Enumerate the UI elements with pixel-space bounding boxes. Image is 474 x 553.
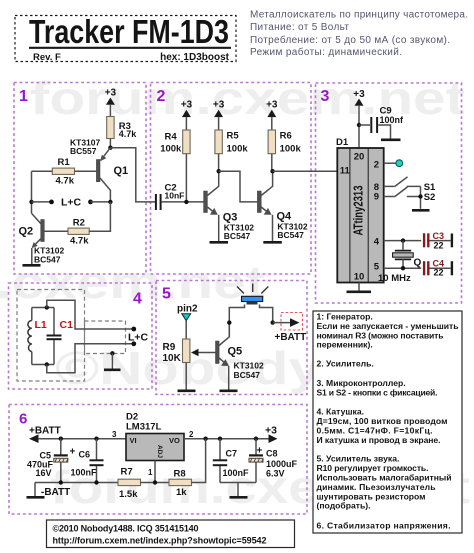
svg-text:http://forum.cxem.net/index.ph: http://forum.cxem.net/index.php?showtopi… <box>53 536 267 546</box>
resistor R5 <box>215 130 248 171</box>
inductor L1 <box>28 308 47 365</box>
node C5 top <box>59 437 63 441</box>
node A: R3/Q1 emitter junction <box>108 146 112 150</box>
section box 4 <box>9 283 153 389</box>
svg-text:D1: D1 <box>336 137 349 148</box>
node ADJ/R7/R8 <box>153 480 157 484</box>
svg-text:Rev. F: Rev. F <box>33 52 61 63</box>
capacitor C4 <box>424 259 451 278</box>
title box <box>15 13 236 63</box>
ground (C9) <box>381 139 401 142</box>
svg-text:переменник).: переменник). <box>317 340 373 350</box>
transistor Q5 KT3102 BC547 <box>216 323 265 390</box>
svg-text:BC547: BC547 <box>224 231 251 241</box>
svg-text:6: 6 <box>19 411 27 428</box>
resistor R3 <box>107 117 138 148</box>
node VO/R8 <box>203 437 207 441</box>
svg-text:6. Стабилизатор напряжения.: 6. Стабилизатор напряжения. <box>317 521 451 531</box>
svg-text:10 MHz: 10 MHz <box>378 273 411 284</box>
svg-text:BC547: BC547 <box>234 370 261 380</box>
wire pin2 to R9 <box>185 321 187 339</box>
resistor R2 <box>44 202 110 246</box>
svg-text:Q1: Q1 <box>114 165 129 177</box>
svg-text:R8: R8 <box>174 468 186 479</box>
wire left vertical R1 to Q2 <box>31 171 33 213</box>
shield box (cable) <box>85 321 126 354</box>
svg-text:100k: 100k <box>160 143 182 154</box>
wire Q3 collector to Q4 base <box>219 171 258 202</box>
wire bottom feed to L+C terminal <box>47 341 136 372</box>
node L+C left junction <box>29 200 33 204</box>
svg-text:+3: +3 <box>105 88 117 99</box>
ground (Q3 emitter) <box>210 241 229 244</box>
node C5 bottom <box>59 480 63 484</box>
svg-text:4.7k: 4.7k <box>70 235 89 246</box>
svg-text:L+C: L+C <box>61 197 82 209</box>
svg-text:+3: +3 <box>181 100 193 111</box>
section box 3 <box>316 83 462 303</box>
power +3 (box1) <box>105 88 117 117</box>
power +3 (R6) <box>266 100 278 131</box>
section box 6 <box>9 405 307 515</box>
wire bottom rail left <box>35 482 118 484</box>
svg-text:20: 20 <box>354 152 365 163</box>
pin 5 wire <box>384 266 422 270</box>
svg-text:100k: 100k <box>280 143 302 154</box>
svg-text:hex: 1D3boost: hex: 1D3boost <box>160 52 230 63</box>
svg-text:22: 22 <box>434 268 444 278</box>
svg-text:И катушка и провод в экране.: И катушка и провод в экране. <box>317 435 441 445</box>
copyright box <box>47 520 295 548</box>
svg-text:Q: Q <box>414 258 422 269</box>
svg-text:R6: R6 <box>280 131 292 142</box>
regulator D2 LM317L <box>112 412 194 478</box>
svg-text:1000uF: 1000uF <box>266 459 298 469</box>
svg-text:VI: VI <box>130 436 137 445</box>
svg-text:R4: R4 <box>165 131 178 142</box>
svg-text:+BATT: +BATT <box>29 426 61 437</box>
svg-text:11: 11 <box>340 165 351 176</box>
svg-text:16V: 16V <box>36 468 52 478</box>
svg-text:©2010 Nobody1488. ICQ 35141514: ©2010 Nobody1488. ICQ 351415140 <box>53 524 199 534</box>
svg-text:1.5k: 1.5k <box>119 489 138 500</box>
wire speaker left lead to Q5 collector <box>227 305 244 337</box>
svg-text:3: 3 <box>112 430 117 439</box>
ground (R9) <box>178 389 196 392</box>
svg-text:L+C: L+C <box>128 332 149 344</box>
svg-text:Металлоискатель по принципу ча: Металлоискатель по принципу частотомера. <box>250 10 468 21</box>
svg-text:+3: +3 <box>353 89 365 100</box>
node L+C rail with terminals <box>32 197 111 209</box>
watermark row 1 <box>30 72 465 124</box>
capacitor C1 <box>47 308 74 365</box>
resistor R8 1k <box>169 439 206 498</box>
svg-text:LM317L: LM317L <box>126 422 162 433</box>
svg-text:10: 10 <box>354 272 365 283</box>
svg-text:+3: +3 <box>266 100 278 111</box>
watermark row 3 <box>55 342 455 394</box>
svg-text:3: 3 <box>321 88 330 105</box>
notes panel <box>313 311 462 533</box>
svg-text:+3: +3 <box>213 100 225 111</box>
svg-text:C3: C3 <box>433 231 445 241</box>
watermark row 2 <box>0 256 265 308</box>
svg-text:6.3V: 6.3V <box>266 468 285 478</box>
svg-text:R5: R5 <box>227 131 240 142</box>
pin 10 ground <box>347 283 372 292</box>
ground (S1 S2) <box>412 209 430 212</box>
wire top feed to L+C terminal <box>47 300 136 331</box>
svg-text:4: 4 <box>133 291 142 308</box>
watermark row 4 <box>50 461 470 513</box>
node L+C label <box>128 332 149 344</box>
svg-text:5: 5 <box>374 262 380 273</box>
svg-text:4.7k: 4.7k <box>119 129 138 139</box>
svg-text:Tracker FM-1D3: Tracker FM-1D3 <box>29 13 229 50</box>
wire VO to +3 <box>184 438 270 440</box>
section box 2 <box>151 83 312 275</box>
ground (Q5 emitter) <box>220 389 238 392</box>
svg-text:5: 5 <box>162 286 171 303</box>
node C6 top <box>94 437 98 441</box>
wire node A to C2 <box>110 148 155 202</box>
transistor Q3 KT3102 BC547 <box>204 171 255 241</box>
svg-text:1: 1 <box>19 88 28 105</box>
capacitor C6 100nF <box>71 439 104 483</box>
IC D1 ATtiny2313 <box>336 137 384 283</box>
shield box (coil) <box>17 290 85 382</box>
svg-text:R9: R9 <box>163 342 176 353</box>
capacitor C8 1000uF 6.3V <box>249 439 298 483</box>
capacitor C2 <box>156 182 204 210</box>
svg-text:1k: 1k <box>176 487 187 498</box>
resistor R7 1.5k <box>118 466 169 500</box>
svg-text:2: 2 <box>374 159 379 170</box>
capacitor C3 <box>424 231 451 251</box>
ground (Q4 emitter) <box>263 241 282 244</box>
ground -BATT <box>27 483 71 499</box>
svg-text:4.7k: 4.7k <box>56 175 75 186</box>
node C8 top <box>254 437 258 441</box>
svg-text:C6: C6 <box>79 450 91 460</box>
node C7 top <box>218 437 222 441</box>
terminal bar (C4) <box>451 261 453 275</box>
node C9 tap <box>357 123 361 127</box>
switch S2 <box>384 187 436 203</box>
node R5/Q3 collector <box>217 169 221 173</box>
svg-text:10K: 10K <box>163 353 182 364</box>
crystal Q 10 MHz <box>378 241 422 284</box>
svg-text:22: 22 <box>434 241 444 251</box>
switch S1 <box>384 177 436 193</box>
svg-text:100nf: 100nf <box>380 115 405 125</box>
ground (C7 C8) <box>230 483 248 498</box>
svg-text:2. Усилитель.: 2. Усилитель. <box>317 359 374 369</box>
potentiometer R9 10K <box>163 339 216 390</box>
ground (shield) <box>104 368 121 371</box>
+BATT output arrow <box>273 313 307 344</box>
wire speaker right lead to +BATT <box>260 305 275 325</box>
svg-text:Режим работы: динамический.: Режим работы: динамический. <box>250 46 402 58</box>
pin 4 wire <box>384 238 422 242</box>
svg-text:ADJ: ADJ <box>156 445 163 458</box>
terminal bar (C3) <box>451 234 453 248</box>
svg-text:4: 4 <box>374 236 380 247</box>
transistor Q1 KT3107 BC557 <box>70 138 128 202</box>
svg-text:-BATT: -BATT <box>41 487 70 498</box>
svg-text:2: 2 <box>157 88 166 105</box>
svg-text:9: 9 <box>374 191 379 202</box>
svg-text:L1: L1 <box>35 319 47 331</box>
node Q1 collector / R2 junction <box>108 200 112 204</box>
capacitor C7 100nF <box>213 439 249 483</box>
svg-text:C7: C7 <box>226 449 238 459</box>
+BATT input arrow <box>29 426 126 444</box>
wire LC top rail <box>32 305 54 309</box>
ground (Q2 emitter) <box>23 264 41 267</box>
svg-text:BC547: BC547 <box>34 255 61 265</box>
svg-text:ATtiny2313: ATtiny2313 <box>352 185 366 235</box>
section box 5 <box>156 281 307 395</box>
resistor R6 <box>268 130 301 171</box>
speaker <box>237 284 268 305</box>
svg-text:Питание: от 5 Вольт: Питание: от 5 Вольт <box>250 22 349 33</box>
svg-text:2: 2 <box>189 430 194 439</box>
svg-text:R2: R2 <box>73 217 85 228</box>
wire switches to ground <box>418 186 422 208</box>
wire C7 C8 bottom rail <box>220 482 256 484</box>
svg-text:KT3102: KT3102 <box>234 361 265 371</box>
svg-text:100nF: 100nF <box>223 468 250 478</box>
svg-text:R7: R7 <box>121 466 133 477</box>
svg-text:BC547: BC547 <box>277 230 304 240</box>
pin 2 indicator node <box>384 160 403 167</box>
power +3 (box3) <box>353 89 365 148</box>
power +3 (R4) <box>181 100 193 131</box>
svg-text:pin2: pin2 <box>177 304 198 315</box>
node pin2 input <box>177 304 198 321</box>
transistor Q2 KT3102 BC547 <box>19 213 65 264</box>
svg-text:C1: C1 <box>60 319 74 331</box>
svg-text:Q5: Q5 <box>228 346 243 358</box>
svg-text:Q2: Q2 <box>19 226 34 238</box>
resistor R1 <box>32 157 97 186</box>
svg-text:S2: S2 <box>424 192 436 203</box>
wire LC bottom rail <box>32 362 54 366</box>
wire shield to ground <box>110 351 114 369</box>
+3 output arrow <box>265 425 278 444</box>
power +3 (R5) <box>213 100 225 131</box>
svg-text:(подобрать).: (подобрать). <box>317 501 371 511</box>
svg-text:+3: +3 <box>265 425 277 437</box>
wire Q4 collector to pin 11 <box>273 170 338 172</box>
capacitor C9 <box>359 106 404 139</box>
capacitor C5 470uF 16V <box>27 439 76 483</box>
transistor Q4 KT3102 BC547 <box>257 171 308 241</box>
section box 1 <box>14 83 146 275</box>
svg-text:100k: 100k <box>227 143 249 154</box>
svg-text:+: + <box>70 447 76 458</box>
wire ADJ pin <box>154 461 156 483</box>
resistor R4 <box>160 130 190 202</box>
svg-text:BC557: BC557 <box>70 146 97 156</box>
svg-text:1: 1 <box>148 468 153 477</box>
node R6/Q4 collector <box>270 169 274 173</box>
svg-text:C8: C8 <box>266 449 278 459</box>
node C6 bottom <box>94 480 98 484</box>
svg-text:+: + <box>257 446 263 457</box>
svg-text:100nF: 100nF <box>71 468 98 478</box>
header description text <box>250 10 468 59</box>
svg-text:VO: VO <box>169 436 180 445</box>
svg-text:+BATT: +BATT <box>275 332 307 343</box>
node R4/C2/Q3 base <box>184 200 188 204</box>
svg-text:10nF: 10nF <box>165 190 185 200</box>
svg-text:Потребление: от 5 до 50 мА (со: Потребление: от 5 до 50 мА (со звуком). <box>250 34 450 46</box>
svg-text:R1: R1 <box>58 157 71 168</box>
svg-text:S1 и S2 - кнопки с фиксацией.: S1 и S2 - кнопки с фиксацией. <box>317 387 438 397</box>
